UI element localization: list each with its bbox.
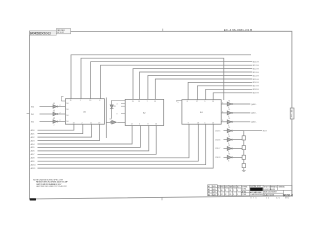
wire diode to A2 [112,99,126,101]
svg-text:0: 0 [139,124,140,126]
inverter gate R1 [227,102,233,106]
svg-text:1: 1 [80,100,81,102]
svg-text:C4: C4 [229,190,231,192]
border frame [29,31,292,199]
svg-text:BD5 H: BD5 H [253,79,259,81]
wire A3 pin to gate y=122 [221,121,227,123]
svg-text:13: 13 [132,101,134,103]
wire stub top-left of A3 [177,100,182,101]
svg-text:DIGITAL SYST: DIGITAL SYST [250,185,261,188]
svg-text:5: 5 [204,122,205,124]
svg-text:18: 18 [197,122,199,124]
svg-text:-1: -1 [218,190,219,192]
vertical wire right of A1 [105,98,107,139]
top fan net labels [253,62,259,95]
svg-text:17: 17 [196,101,198,103]
resistor R3 [242,155,245,159]
wire top fan from pin x=100 [101,65,253,99]
sheet info row below [251,198,290,200]
ground at chain bottom [242,168,246,171]
title block right text [264,185,286,196]
wire bottom fan to pin x=213 [38,124,214,168]
inverter gate M1 [106,121,125,125]
wire bottom fan to pin x=74 [38,124,74,130]
wire bottom fan to pin x=83 [38,124,83,133]
wire top fan from pin x=213 [213,93,252,100]
bottom-left corner mark [30,198,36,200]
top wire fan [71,55,252,100]
IC pin number labels [70,100,214,126]
inverter gate R6 [224,147,233,151]
svg-text:74: 74 [228,145,230,147]
svg-text:87: 87 [221,194,223,196]
IC A1 inner pin name column [66,103,68,123]
svg-text:4: 4 [117,103,118,105]
inverter gate L1 [40,105,66,109]
svg-text:74: 74 [228,127,230,129]
svg-text:BD2 H: BD2 H [253,68,259,70]
wire gate R1 output [233,103,251,105]
wire hook top-left of A1 [61,97,65,102]
inverter gate R5 [224,138,233,142]
inverter gate L2 [40,112,66,116]
svg-text:6-83: 6-83 [213,189,216,191]
wire top fan from pin x=133 [133,69,252,100]
svg-text:2: 2 [60,120,61,122]
svg-text:21: 21 [225,190,227,192]
inverter gate R3 [227,120,233,124]
svg-text:5: 5 [178,102,179,104]
svg-text:16: 16 [155,124,157,126]
resistor R1 [242,136,245,140]
svg-text:5 4: 5 4 [266,198,269,200]
svg-text:REF: REF [229,186,232,188]
svg-text:EC–4 96–0931–D1 B: EC–4 96–0931–D1 B [224,28,252,32]
zone marker box right border [290,108,294,119]
inverter gate R2 [227,111,233,115]
svg-text:A4: A4 [208,193,210,196]
resistor R4 [242,164,245,168]
wire gates R5-R7 to chain [233,140,244,158]
IC A3 [182,100,221,125]
svg-text:74: 74 [228,109,230,111]
svg-text:2: 2 [60,105,61,107]
svg-text:6: 6 [222,102,223,104]
svg-text:CS6 8: CS6 8 [215,157,220,159]
svg-text:SIZE CODE IDENT: SIZE CODE IDENT [264,192,277,194]
svg-text:CS5 7: CS5 7 [215,148,220,150]
svg-text:9: 9 [188,122,189,124]
svg-text:BD0 H: BD0 H [253,62,259,64]
svg-text:RDY: RDY [263,131,268,133]
notes text block [33,179,68,188]
inverter gate L3 [40,120,66,124]
wire bottom fan to pin x=92 [38,124,92,137]
svg-text:86: 86 [221,190,223,192]
svg-text:19: 19 [138,101,140,103]
wire bottom fan to pin x=132 [38,126,133,145]
bottom fan net labels [31,129,37,170]
inverter gate R4 [224,129,233,133]
wire gate R3 output [233,121,251,123]
wire bottom fan to pin x=156 [38,126,157,155]
svg-text:7: 7 [147,101,148,103]
svg-text:C: C [291,110,293,113]
svg-text:13: 13 [212,101,214,103]
svg-text:04: 04 [53,103,55,105]
wire bottom fan to pin x=198 [38,124,199,161]
svg-text:D0: D0 [66,109,68,111]
svg-text:8: 8 [228,161,229,163]
wire top fan from pin x=91 [91,62,253,99]
svg-text:QA1 L: QA1 L [251,112,258,115]
svg-text:SCALE NONE: SCALE NONE [264,193,275,196]
svg-text:A1: A1 [208,185,210,188]
svg-text:04: 04 [110,118,112,120]
svg-text:10: 10 [89,100,91,102]
wire top fan from pin x=71 [71,55,251,99]
svg-text:CS3 5: CS3 5 [215,130,220,132]
wire bottom fan to pin x=189 [38,124,190,158]
svg-text:-2: -2 [218,194,219,196]
title block grid [217,185,292,196]
svg-text:MEM BD: MEM BD [279,186,286,188]
IC A2 [125,99,164,125]
wire A3 pin to gate y=104 [221,103,227,105]
svg-text:6-83: 6-83 [213,192,216,194]
zone tick left border [27,113,30,115]
revision approval box [56,29,70,34]
svg-text:LOGIC DIAG 2/4: LOGIC DIAG 2/4 [264,188,275,191]
svg-text:13: 13 [73,122,75,124]
svg-text:0: 0 [99,100,100,102]
svg-text:9: 9 [117,113,118,115]
zone tick bottom border [161,197,163,200]
svg-text:11: 11 [90,122,92,124]
svg-text:6-83: 6-83 [213,186,216,188]
svg-text:BD3 H: BD3 H [253,72,259,74]
svg-text:15: 15 [154,101,156,103]
svg-text:D0: D0 [66,121,68,123]
svg-text:74: 74 [228,118,230,120]
svg-text:3 2 1: 3 2 1 [276,198,280,200]
svg-text:04: 04 [53,110,55,112]
svg-text:74: 74 [228,154,230,156]
svg-text:11: 11 [70,100,72,102]
inverter gate R7 [224,155,233,159]
svg-text:6-83: 6-83 [213,194,216,196]
svg-text:BD6 H: BD6 H [253,82,259,84]
svg-text:8: 8 [148,124,149,126]
svg-text:7: 7 [54,125,55,127]
wire top fan from pin x=140 [140,72,253,99]
svg-text:A2: A2 [208,188,210,191]
svg-text:2: 2 [60,112,61,114]
svg-text:5: 5 [204,101,205,103]
revision history strip [30,31,57,36]
svg-text:BD9 H: BD9 H [253,93,259,95]
title block header text [218,186,248,196]
svg-text:13: 13 [212,122,214,124]
svg-text:2: 2 [82,122,83,124]
svg-text:BD1 H: BD1 H [253,65,259,67]
wire top fan from pin x=81 [81,58,224,100]
svg-text:QA2 L: QA2 L [251,121,258,124]
wire top fan from pin x=188 [188,82,252,99]
resistor chain vertical wire [233,131,244,169]
svg-text:6: 6 [222,111,223,113]
wire bottom fan to pin x=149 [38,126,149,151]
svg-text:19: 19 [98,122,100,124]
svg-text:D0: D0 [66,103,68,105]
svg-text:74: 74 [228,136,230,138]
resistor R2 [242,146,245,150]
wire A3 pin to gate y=113 [221,112,227,114]
svg-text:BD7 H: BD7 H [253,86,259,88]
svg-text:PRT: PRT [221,186,224,188]
wire bottom fan to pin x=100 [38,124,100,140]
svg-text:A3: A3 [208,191,210,194]
wire bottom fan to pin x=140 [38,126,141,148]
revision table small [208,185,218,196]
svg-text:04: 04 [53,118,55,120]
svg-text:8 7 6: 8 7 6 [251,198,257,200]
svg-text:6: 6 [222,120,223,122]
IC A1 [65,99,104,125]
svg-text:LAST REF DES USED R17 C9 A3 CR: LAST REF DES USED R17 C9 A3 CR2 [36,185,68,188]
svg-text:BD8 H: BD8 H [253,89,259,91]
wire top fan from pin x=155 [155,79,252,99]
wire gate R2 output [233,112,251,114]
wire top fan from pin x=197 [197,86,252,100]
wire bottom fan to pin x=206 [38,124,206,165]
svg-text:B40406060-06 0-13: B40406060-06 0-13 [30,32,51,36]
svg-text:22: 22 [225,194,227,196]
bottom wire fan [38,124,214,168]
svg-text:DT 6-8: DT 6-8 [242,194,246,196]
svg-text:CS4 6: CS4 6 [215,139,220,141]
svg-text:12: 12 [131,124,133,126]
svg-text:D0: D0 [66,115,68,117]
zone tick top border [162,29,164,32]
svg-text:SH 1: SH 1 [285,198,289,200]
A2 left pin stubs [121,104,125,114]
svg-text:BD4 H: BD4 H [253,75,259,77]
diode CR1 vertical [110,100,114,118]
svg-text:74: 74 [228,100,230,102]
svg-text:COMPUTER PROD: COMPUTER PROD [250,194,264,196]
svg-text:AP 10-82: AP 10-82 [57,31,64,34]
svg-text:8: 8 [187,101,188,103]
logo block [250,188,263,191]
wire top fan from pin x=206 [206,89,253,99]
wire top fan from pin x=148 [148,76,252,100]
svg-text:AD10: AD10 [31,164,37,167]
svg-text:QA0 L: QA0 L [251,103,258,106]
wire gate R4 output long [233,130,262,132]
svg-text:C5: C5 [229,194,231,196]
